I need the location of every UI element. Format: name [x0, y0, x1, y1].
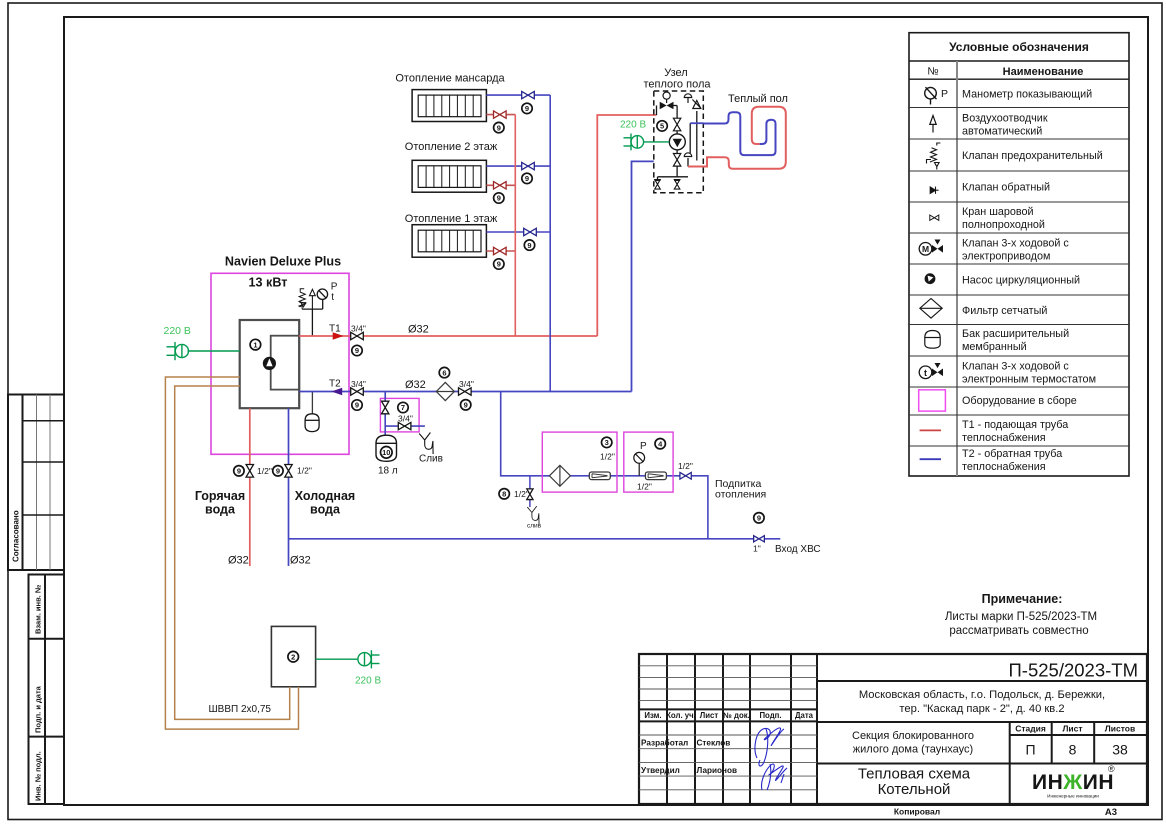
svg-text:t: t	[924, 368, 927, 378]
cold water pipe (blue) down from boiler	[288, 408, 290, 566]
node 7 label	[398, 402, 408, 412]
radiator floor1 return pipe (blue)	[486, 231, 550, 233]
filter assembly magenta box 3	[542, 432, 617, 492]
svg-text:1/2": 1/2"	[297, 465, 312, 475]
legend icon: бак расширительный мембранный	[925, 331, 940, 349]
svg-text:Т1 - подающая труба: Т1 - подающая труба	[962, 419, 1068, 431]
svg-text:мембранный: мембранный	[962, 341, 1027, 353]
svg-text:Инженерные инновации: Инженерные инновации	[1047, 794, 1099, 799]
svg-text:П: П	[1025, 742, 1035, 758]
node 9 after filter	[461, 400, 471, 410]
svg-text:8: 8	[502, 490, 506, 499]
svg-text:9: 9	[464, 401, 468, 410]
svg-text:9: 9	[355, 346, 359, 355]
floor heating supply riser (red)	[597, 115, 656, 336]
svg-text:автоматический: автоматический	[962, 126, 1042, 138]
unit air vent top	[684, 94, 691, 103]
node 5 label	[657, 121, 667, 131]
boiler equipment magenta box	[211, 273, 349, 454]
svg-text:Секция блокированного: Секция блокированного	[852, 730, 974, 742]
svg-text:Утвердил: Утвердил	[641, 766, 680, 775]
manometer in box 4	[634, 452, 645, 475]
svg-text:Ø32: Ø32	[405, 379, 426, 391]
valve on cold water	[285, 465, 292, 478]
node 3 label	[602, 437, 612, 447]
radiator attic return pipe (blue)	[486, 94, 550, 96]
valve on floor2 supply	[494, 182, 507, 189]
svg-text:Узел: Узел	[664, 67, 687, 79]
left upper thin rows	[639, 666, 817, 790]
svg-text:Взам. инв. №: Взам. инв. №	[34, 585, 43, 634]
svg-text:электронным термостатом: электронным термостатом	[962, 373, 1096, 385]
svg-text:ШВВП 2х0,75: ШВВП 2х0,75	[209, 704, 272, 715]
valve on floor2 return	[522, 162, 535, 169]
node 9 floor2 supply	[494, 193, 504, 203]
legend icon: клапан обратный	[930, 187, 938, 194]
svg-text:3/4": 3/4"	[351, 324, 366, 334]
svg-text:рассматривать совместно: рассматривать совместно	[949, 625, 1088, 637]
node 2 label	[288, 651, 299, 662]
warm floor return coil (blue)	[703, 112, 775, 155]
cold water main	[289, 538, 781, 540]
node 9 hot water	[234, 466, 244, 476]
svg-text:Теплый пол: Теплый пол	[728, 93, 788, 105]
pressure reducer magenta box 4	[624, 432, 673, 492]
floor heating return drop (blue)	[632, 161, 654, 391]
svg-text:А3: А3	[1105, 807, 1117, 818]
check valve in box 3	[589, 472, 610, 480]
svg-text:9: 9	[757, 514, 761, 523]
expansion branch pipe	[385, 392, 425, 436]
legend icon: клапан предохранительный	[927, 143, 941, 170]
T1 flow arrow	[333, 332, 344, 339]
left margin table: Согласовано	[8, 395, 64, 571]
valve 3/4" on T2	[351, 388, 364, 395]
valve after box 4	[680, 472, 691, 479]
valve 3/4" after filter	[459, 388, 472, 395]
svg-text:Ø32: Ø32	[290, 555, 311, 567]
svg-text:9: 9	[525, 174, 529, 183]
svg-text:№: №	[927, 66, 938, 78]
power line box 2	[316, 658, 359, 660]
unit power plug	[624, 134, 670, 151]
boiler pump	[263, 357, 276, 370]
left margin table: Взам. инв. № / Подп. и дата / Инв. № подл.	[29, 575, 65, 805]
unit air vent lower	[684, 153, 691, 157]
svg-text:Ларионов: Ларионов	[697, 766, 738, 775]
svg-text:Тепловая схема: Тепловая схема	[858, 766, 971, 783]
svg-text:Насос циркуляционный: Насос циркуляционный	[962, 274, 1080, 286]
svg-text:Отопление мансарда: Отопление мансарда	[395, 73, 505, 85]
svg-text:Клапан предохранительный: Клапан предохранительный	[962, 150, 1103, 162]
legend icon: воздухоотводчик автоматический	[930, 116, 936, 133]
legend icon: насос циркуляционный	[925, 274, 935, 284]
svg-text:9: 9	[497, 260, 501, 269]
legend icon: Т1 подающая труба (red)	[920, 429, 941, 431]
svg-text:отопления: отопления	[715, 489, 766, 501]
svg-text:Т2 - обратная труба: Т2 - обратная труба	[962, 448, 1062, 460]
header texts	[644, 711, 813, 720]
T2 flow arrow	[331, 388, 342, 395]
valve on attic return	[522, 91, 535, 98]
svg-text:Согласовано: Согласовано	[12, 510, 21, 562]
legend icon: Т2 обратная труба (blue)	[920, 458, 941, 460]
boiler inner heat exchanger box	[271, 336, 300, 390]
node 9 floor1 supply	[494, 259, 504, 269]
radiator return trunk (blue riser)	[549, 95, 551, 391]
radiator floor2 return pipe (blue)	[486, 165, 550, 167]
svg-text:Подп.: Подп.	[759, 711, 781, 720]
legend texts	[962, 88, 1103, 473]
svg-text:Лист: Лист	[1062, 724, 1082, 734]
svg-text:Наименование: Наименование	[1003, 66, 1084, 78]
svg-text:Отопление 2 этаж: Отопление 2 этаж	[405, 141, 498, 153]
strainer filter in box 3	[549, 465, 570, 486]
svg-text:электроприводом: электроприводом	[962, 250, 1050, 262]
manometer on boiler	[317, 289, 327, 299]
radiator floor1 supply pipe (red)	[486, 250, 515, 252]
svg-text:Оборудование в сборе: Оборудование в сборе	[962, 395, 1077, 407]
signature 1 (blue)	[755, 728, 787, 790]
unit bottom drain valves	[655, 180, 681, 189]
node 9 floor1 return	[524, 240, 534, 250]
svg-text:Московская область, г.о. Подол: Московская область, г.о. Подольск, д. Бе…	[859, 689, 1105, 701]
svg-text:Дата: Дата	[795, 711, 814, 720]
valve on floor1 supply	[494, 247, 507, 254]
svg-text:T1: T1	[329, 324, 341, 335]
drain funnel near tank	[419, 433, 433, 455]
boiler safety group stem	[302, 299, 323, 336]
svg-text:Лист: Лист	[700, 711, 719, 720]
svg-text:1/2": 1/2"	[514, 489, 529, 499]
control cable inner (brown)	[175, 386, 290, 719]
power 220V line to boiler	[188, 350, 240, 352]
svg-text:Воздухоотводчик: Воздухоотводчик	[962, 113, 1048, 125]
svg-text:Стеклов: Стеклов	[697, 739, 731, 748]
valve on expansion drain (horizontal)	[398, 422, 411, 429]
svg-text:®: ®	[1108, 764, 1115, 774]
control cable outer (brown)	[165, 377, 298, 729]
svg-text:Кол. уч.: Кол. уч.	[666, 711, 696, 720]
node 4 label	[655, 439, 665, 449]
svg-text:220 В: 220 В	[164, 325, 191, 337]
svg-text:теплоснабжения: теплоснабжения	[962, 432, 1046, 444]
left columns verticals	[667, 654, 817, 804]
svg-text:220 В: 220 В	[355, 676, 381, 687]
svg-text:3: 3	[605, 438, 609, 447]
node 9 on T2	[352, 400, 362, 410]
svg-text:теплого пола: теплого пола	[644, 79, 712, 91]
radiator floor 2	[412, 160, 486, 192]
legend icons	[919, 87, 948, 459]
svg-text:Клапан 3-х ходовой с: Клапан 3-х ходовой с	[962, 237, 1069, 249]
svg-text:3/4": 3/4"	[351, 379, 366, 389]
node 9 attic supply	[494, 122, 504, 132]
control box 2	[271, 626, 315, 686]
node 9 cold water	[273, 466, 283, 476]
svg-text:Отопление 1 этаж: Отопление 1 этаж	[405, 213, 498, 225]
unit internals: left riser to mixing valve	[657, 106, 697, 180]
svg-text:6: 6	[442, 368, 446, 377]
svg-text:T2: T2	[329, 379, 341, 390]
svg-text:3/4": 3/4"	[459, 379, 474, 389]
svg-text:5: 5	[660, 122, 664, 131]
svg-text:Стадия: Стадия	[1015, 724, 1046, 734]
svg-text:Условные обозначения: Условные обозначения	[949, 40, 1089, 54]
drain funnel small	[527, 506, 539, 524]
check valve in box 4	[645, 472, 666, 480]
svg-text:2: 2	[291, 653, 295, 662]
svg-text:220 В: 220 В	[620, 120, 646, 131]
strainer filter on T2	[436, 382, 454, 400]
svg-text:Копировал: Копировал	[894, 807, 940, 817]
unit valve upper (vertical)	[673, 118, 680, 131]
svg-text:1: 1	[253, 340, 257, 349]
svg-text:Клапан 3-х ходовой с: Клапан 3-х ходовой с	[962, 360, 1069, 372]
node 8 label	[499, 489, 509, 499]
radiator floor 1	[412, 225, 486, 258]
ИНЖИН logo	[1032, 764, 1115, 799]
svg-text:Манометр показывающий: Манометр показывающий	[962, 88, 1092, 100]
dashed enclosure of floor heating unit	[654, 91, 704, 193]
right part	[817, 681, 1147, 804]
unit valve lower (vertical)	[673, 154, 680, 167]
svg-text:жилого дома (таунхаус): жилого дома (таунхаус)	[853, 743, 973, 755]
boiler body	[240, 320, 300, 408]
node 9 on T1	[352, 345, 362, 355]
air vent on boiler	[310, 289, 316, 309]
svg-text:Инв. № подл.: Инв. № подл.	[34, 751, 43, 801]
valve on expansion branch (vertical)	[382, 401, 389, 414]
unit blue outlet stub	[690, 122, 703, 124]
svg-text:9: 9	[525, 104, 529, 113]
warm floor supply coil (red)	[688, 107, 786, 169]
svg-text:вода: вода	[310, 503, 341, 517]
radiator attic	[412, 90, 486, 122]
T1 supply pipe from boiler	[299, 335, 597, 337]
svg-text:П-525/2023-ТМ: П-525/2023-ТМ	[1009, 660, 1139, 681]
svg-text:Navien Deluxe Plus: Navien Deluxe Plus	[225, 255, 341, 269]
svg-text:ИНЖИН: ИНЖИН	[1032, 771, 1114, 794]
svg-text:9: 9	[497, 123, 501, 132]
valve on hot water	[246, 465, 253, 478]
svg-text:Кран шаровой: Кран шаровой	[962, 206, 1034, 218]
svg-text:Листы марки П-525/2023-ТМ: Листы марки П-525/2023-ТМ	[945, 611, 1097, 623]
svg-text:№ док.: № док.	[723, 711, 750, 720]
svg-text:Клапан обратный: Клапан обратный	[962, 181, 1050, 193]
svg-text:1/2": 1/2"	[637, 482, 652, 492]
drain tee with valve	[527, 476, 533, 507]
node 9 floor2 return	[522, 173, 532, 183]
T2 return pipe to boiler	[299, 391, 631, 393]
svg-text:9: 9	[527, 241, 531, 250]
svg-text:Горячая: Горячая	[195, 489, 245, 503]
power plug boiler	[167, 342, 189, 360]
svg-text:9: 9	[497, 194, 501, 203]
svg-text:1/2": 1/2"	[257, 466, 272, 476]
boiler expansion tank stem	[311, 392, 313, 414]
legend icon: клапан 3-х ходовой с электронным термостатом	[919, 363, 943, 379]
node 10 label	[381, 447, 393, 459]
svg-text:P: P	[941, 88, 948, 100]
radiator supply trunk (red riser)	[514, 115, 516, 336]
radiator floor2 supply pipe (red)	[486, 184, 515, 186]
unit safety valve (triangle)	[692, 100, 701, 109]
svg-text:вода: вода	[205, 503, 236, 517]
legend icon: клапан 3-х ходовой с электроприводом	[919, 240, 943, 256]
svg-text:тер. "Каскад парк - 2", д. 40: тер. "Каскад парк - 2", д. 40 кв.2	[899, 703, 1064, 715]
svg-text:7: 7	[401, 403, 405, 412]
svg-text:Изм.: Изм.	[644, 711, 661, 720]
legend icon: фильтр сетчатый	[920, 299, 942, 319]
svg-text:Холодная: Холодная	[295, 489, 355, 503]
svg-text:18 л: 18 л	[378, 466, 398, 477]
radiator attic supply pipe (red)	[486, 114, 515, 116]
svg-text:теплоснабжения: теплоснабжения	[962, 461, 1046, 473]
svg-text:1": 1"	[753, 544, 761, 554]
svg-text:Бак расширительный: Бак расширительный	[962, 328, 1069, 340]
names	[641, 738, 737, 775]
svg-text:38: 38	[1112, 742, 1128, 758]
valve 3/4" on T1	[351, 332, 364, 339]
svg-text:9: 9	[355, 401, 359, 410]
svg-text:M: M	[922, 244, 929, 254]
svg-text:Листов: Листов	[1105, 724, 1135, 734]
node 6 label	[439, 367, 449, 377]
svg-text:Котельной: Котельной	[878, 781, 951, 798]
expansion tank branch magenta box	[380, 398, 419, 432]
hot water pipe (red) down from boiler	[249, 408, 251, 566]
legend icon: кран шаровой полнопроходной	[930, 215, 939, 220]
svg-text:слив: слив	[527, 523, 542, 530]
unit circulation pump	[669, 134, 685, 150]
svg-text:Ø32: Ø32	[408, 324, 429, 336]
valve on attic supply	[494, 111, 507, 118]
power plug box 2	[358, 650, 380, 668]
svg-text:Фильтр сетчатый: Фильтр сетчатый	[962, 305, 1047, 317]
make-up drop from T2	[501, 392, 708, 539]
svg-text:10: 10	[382, 448, 390, 457]
svg-text:13 кВт: 13 кВт	[249, 276, 288, 290]
node 1 label	[250, 339, 261, 350]
safety valve on boiler (spring)	[298, 289, 306, 309]
svg-text:P: P	[640, 441, 647, 452]
svg-text:t: t	[331, 292, 334, 303]
svg-text:1/2": 1/2"	[600, 452, 615, 462]
svg-text:Примечание:: Примечание:	[982, 592, 1063, 606]
svg-text:1/2": 1/2"	[678, 461, 693, 471]
svg-text:8: 8	[1069, 742, 1077, 758]
membrane tank 18 l	[376, 435, 397, 461]
legend icon: манометр показывающий	[925, 87, 948, 104]
svg-text:Ø32: Ø32	[228, 555, 249, 567]
node 9 inlet	[754, 513, 764, 523]
node 9 attic return	[522, 103, 532, 113]
3-way mixing valve with actuator	[660, 92, 674, 109]
inlet valve 1"	[754, 536, 765, 542]
svg-text:Слив: Слив	[419, 454, 443, 465]
svg-text:Разработал: Разработал	[641, 738, 688, 748]
legend icon: оборудование в сборе	[919, 390, 946, 411]
svg-text:9: 9	[237, 467, 241, 476]
valve on floor1 return	[524, 228, 537, 235]
svg-text:Вход ХВС: Вход ХВС	[775, 544, 821, 555]
svg-text:9: 9	[276, 467, 280, 476]
svg-text:полнопроходной: полнопроходной	[962, 219, 1045, 231]
boiler expansion tank	[305, 414, 319, 432]
svg-text:Подп. и дата: Подп. и дата	[34, 685, 43, 733]
